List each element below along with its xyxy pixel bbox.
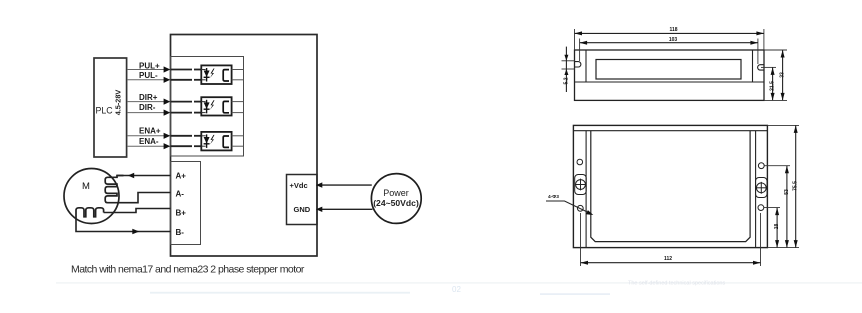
driver main box xyxy=(171,35,318,257)
hole callout 4-Φ3 xyxy=(546,194,593,215)
svg-text:(24~50Vdc): (24~50Vdc) xyxy=(373,198,419,208)
label PUL+ xyxy=(139,62,160,71)
terminal label B+ xyxy=(176,209,187,218)
svg-text:+Vdc: +Vdc xyxy=(290,181,308,190)
front view right dimension B xyxy=(764,166,790,248)
svg-text:The self-defined technical spe: The self-defined technical specification… xyxy=(628,281,725,287)
front view right dimension A xyxy=(764,208,780,248)
wire DIR- xyxy=(127,110,202,116)
wire PUL- xyxy=(127,77,202,83)
svg-text:4-Φ3: 4-Φ3 xyxy=(548,194,559,200)
wire +Vdc xyxy=(316,182,372,187)
right rail bottom hole xyxy=(758,205,764,211)
wire ENA- xyxy=(127,143,202,149)
svg-text:118: 118 xyxy=(669,27,677,33)
motor M xyxy=(64,169,119,224)
svg-text:PUL-: PUL- xyxy=(139,71,158,80)
svg-text:33: 33 xyxy=(780,72,786,78)
svg-text:18: 18 xyxy=(774,224,780,230)
svg-text:A+: A+ xyxy=(176,172,187,181)
optocoupler U2 (DIR) xyxy=(201,97,243,115)
label DIR+ xyxy=(139,93,158,102)
power terminal box xyxy=(287,175,318,225)
motor terminal block xyxy=(171,162,201,245)
right rail screw xyxy=(755,178,767,198)
svg-text:53: 53 xyxy=(784,189,790,195)
top view right outer dimension xyxy=(764,50,787,100)
wire B- xyxy=(76,220,171,234)
svg-text:B-: B- xyxy=(176,228,185,237)
right rail top hole xyxy=(758,163,764,169)
right mounting slot xyxy=(758,65,764,70)
PLC block xyxy=(94,58,127,157)
svg-text:DIR+: DIR+ xyxy=(139,93,158,102)
optocoupler U3 (ENA) xyxy=(201,132,243,151)
label +Vdc xyxy=(290,181,308,190)
svg-text:B+: B+ xyxy=(176,209,187,218)
top view body xyxy=(575,50,765,100)
terminal label A+ xyxy=(176,172,187,181)
motor winding B (bottom crenellation) xyxy=(76,208,104,220)
svg-text:4.5-28V: 4.5-28V xyxy=(113,90,122,116)
top view right inner dimension xyxy=(761,67,776,100)
faint watermark marks xyxy=(56,281,862,296)
wire DIR+ xyxy=(127,99,202,105)
left rail bottom hole xyxy=(577,205,583,211)
motor winding A (right crenellation) xyxy=(105,176,123,203)
top view window rect xyxy=(596,60,741,80)
svg-text:PLC: PLC xyxy=(96,106,114,116)
wire PUL+ xyxy=(127,66,202,72)
svg-text:A-: A- xyxy=(176,190,185,199)
label PUL- xyxy=(139,71,158,80)
power source circle xyxy=(371,174,421,224)
svg-text:GND: GND xyxy=(294,205,311,214)
wire A- xyxy=(117,193,171,203)
svg-text:21.5: 21.5 xyxy=(770,81,776,91)
svg-text:Power: Power xyxy=(383,188,409,198)
svg-text:75.5: 75.5 xyxy=(793,181,799,191)
label ENA+ xyxy=(139,126,161,135)
svg-text:DIR-: DIR- xyxy=(139,103,156,112)
label GND xyxy=(294,205,311,214)
svg-text:112: 112 xyxy=(664,256,672,262)
label ENA- xyxy=(139,137,159,146)
svg-text:5.2: 5.2 xyxy=(563,77,569,84)
wire ENA+ xyxy=(127,133,202,139)
top view left small dimension xyxy=(562,47,576,92)
svg-text:ENA-: ENA- xyxy=(139,137,159,146)
front view bottom dimension 112 xyxy=(581,213,761,266)
left rail screw xyxy=(575,175,587,195)
left rail top hole xyxy=(577,159,583,165)
label DIR- xyxy=(139,103,156,112)
svg-text:103: 103 xyxy=(669,37,678,43)
dimension 103 xyxy=(580,37,758,64)
svg-text:ENA+: ENA+ xyxy=(139,126,161,135)
wire A+ xyxy=(117,173,171,179)
left mounting slot xyxy=(575,62,581,67)
svg-text:02: 02 xyxy=(452,285,461,294)
inner opto section box xyxy=(171,57,244,157)
caption xyxy=(71,264,305,276)
dimension 118 xyxy=(575,27,764,50)
wire GND xyxy=(316,207,373,212)
front view right dimension C xyxy=(767,125,799,247)
svg-text:Match with nema17 and nema23 2: Match with nema17 and nema23 2 phase ste… xyxy=(71,264,305,276)
front face panel xyxy=(591,131,750,242)
wire B+ xyxy=(104,209,171,213)
front view outer body xyxy=(573,125,767,247)
terminal label A- xyxy=(176,190,185,199)
optocoupler U1 (PUL) xyxy=(201,65,243,84)
svg-text:M: M xyxy=(82,181,90,192)
terminal label B- xyxy=(176,228,185,237)
